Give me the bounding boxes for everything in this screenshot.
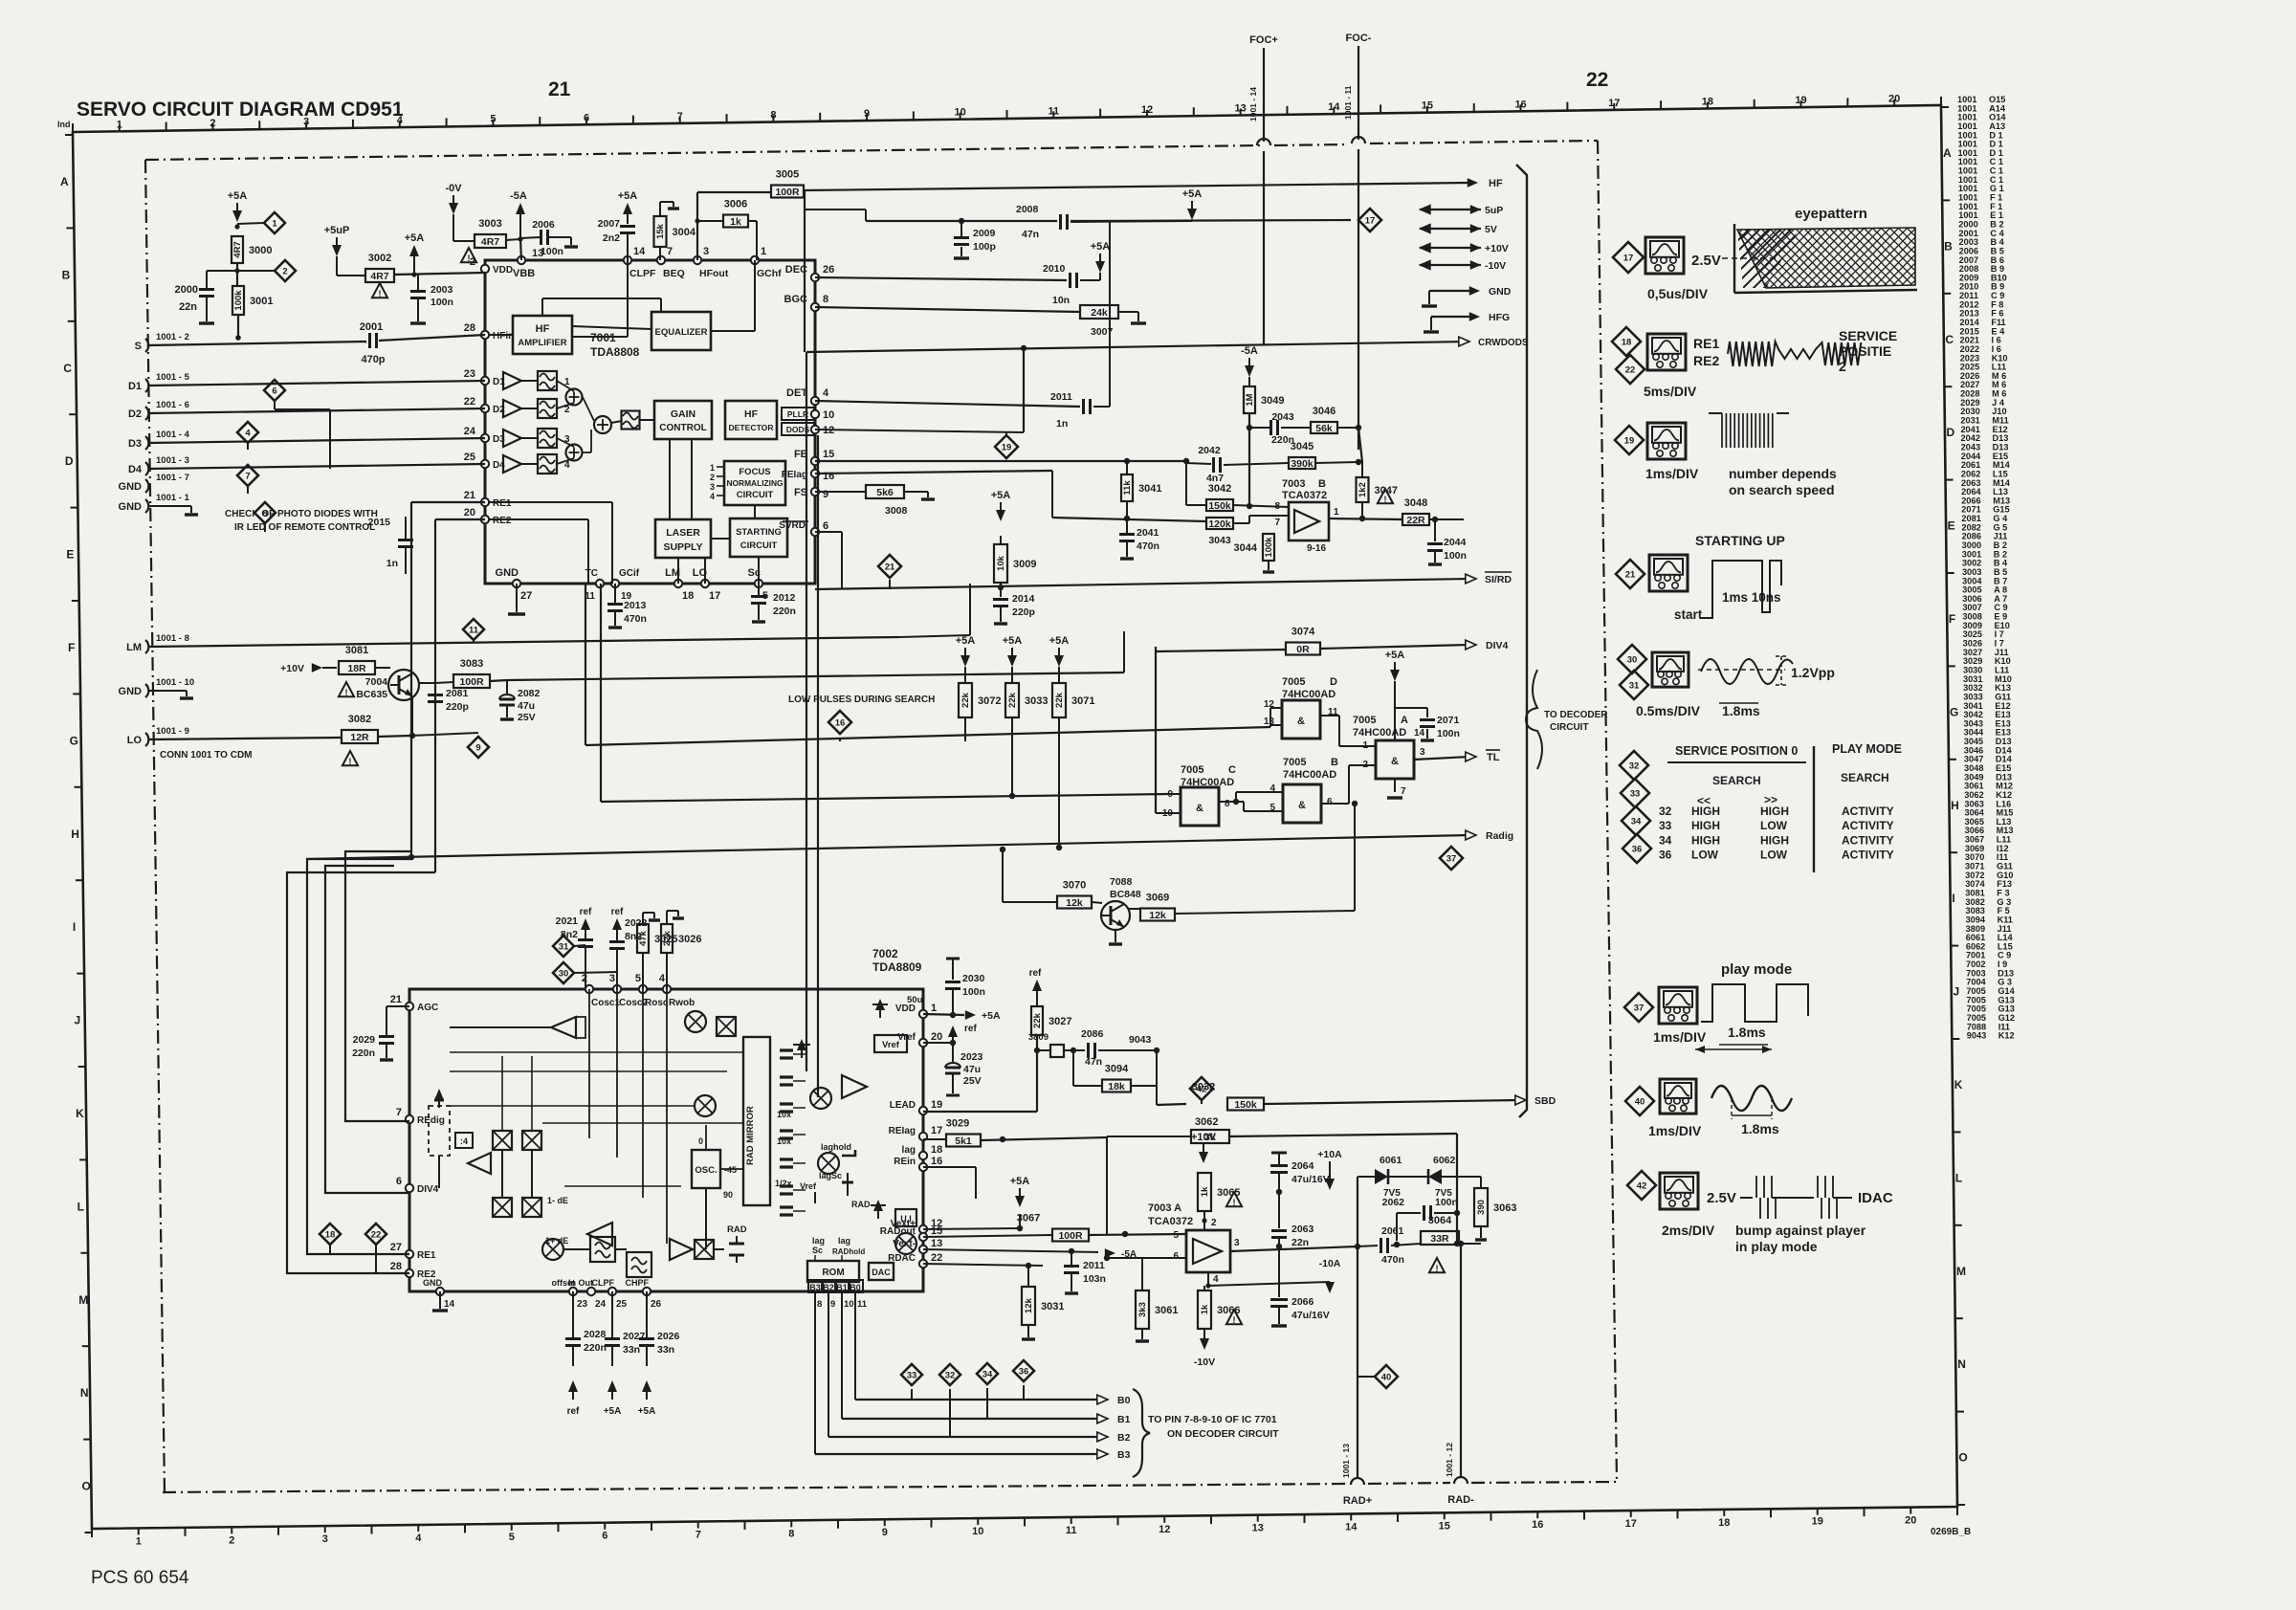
svg-text:13: 13 [532, 248, 543, 259]
svg-text:F: F [68, 641, 75, 654]
svg-text:ACTIVITY: ACTIVITY [1842, 849, 1894, 862]
svg-text:40: 40 [1635, 1097, 1645, 1108]
svg-text:16: 16 [1532, 1519, 1543, 1531]
IC7002 bottom pins [436, 1288, 444, 1295]
svg-text:150k: 150k [1234, 1099, 1257, 1111]
power +10V 7003a [1199, 1152, 1208, 1163]
svg-text:4: 4 [659, 973, 666, 984]
svg-text:SI/RD: SI/RD [1485, 574, 1512, 585]
svg-text:FS: FS [794, 487, 807, 498]
svg-text:1001 - 8: 1001 - 8 [156, 633, 189, 644]
svg-text:HF: HF [744, 408, 759, 420]
resistor R3063 390R [1480, 1177, 1482, 1188]
svg-text:D: D [65, 454, 74, 468]
arrow SIRD [1466, 574, 1476, 584]
svg-text:0.5ms/DIV: 0.5ms/DIV [1636, 703, 1701, 718]
vref pin wire [923, 1042, 953, 1044]
svg-text:5V: 5V [1485, 224, 1497, 235]
svg-text:B1: B1 [1117, 1414, 1131, 1425]
svg-text:26: 26 [823, 264, 834, 276]
svg-text:3083: 3083 [460, 658, 483, 670]
svg-text:Rwob: Rwob [669, 998, 695, 1008]
svg-text:9: 9 [864, 108, 870, 120]
svg-text:3070: 3070 [1063, 880, 1086, 892]
svg-text:M: M [78, 1293, 88, 1307]
svg-text:2010: 2010 [1043, 263, 1066, 275]
svg-text:2ms/DIV: 2ms/DIV [1662, 1223, 1715, 1238]
wire 3000-3001 [236, 263, 238, 286]
svg-text:2063: 2063 [1291, 1224, 1314, 1235]
svg-text:2066: 2066 [1291, 1296, 1314, 1308]
wire HF main [804, 183, 1469, 190]
svg-text:REdig: REdig [417, 1115, 445, 1126]
svg-text:2: 2 [229, 1534, 234, 1546]
svg-text:6: 6 [272, 386, 276, 397]
svg-text:9043: 9043 [1967, 1031, 1986, 1041]
capacitor C2009 100p [960, 221, 962, 236]
svg-text:K: K [76, 1107, 84, 1120]
resistor R3042 150k [1206, 499, 1233, 511]
tri radout [670, 1239, 693, 1260]
mult top [685, 1011, 706, 1032]
svg-text:B: B [1944, 239, 1953, 253]
svg-text:4: 4 [415, 1533, 422, 1544]
svg-text:GND: GND [119, 686, 143, 697]
svg-text:7: 7 [1274, 518, 1280, 528]
wire sc down [758, 584, 760, 589]
svg-text:N: N [1957, 1357, 1966, 1371]
svg-text:5: 5 [1173, 1230, 1179, 1241]
svg-text:3: 3 [703, 246, 709, 257]
svg-text:9043: 9043 [1129, 1034, 1152, 1046]
testpoint diamond 7 [237, 465, 258, 486]
svg-text:36: 36 [1019, 1367, 1029, 1378]
svg-text:3004: 3004 [673, 227, 696, 238]
svg-text:2071: 2071 [1437, 715, 1460, 726]
power ref 3027 [1032, 980, 1042, 991]
svg-text:DIV4: DIV4 [1486, 640, 1509, 651]
pin13 wire [520, 239, 521, 260]
svg-text:4R7: 4R7 [481, 236, 499, 248]
svg-text:ref: ref [580, 907, 592, 917]
svg-text:D: D [1947, 426, 1955, 439]
svg-text::4: :4 [460, 1136, 468, 1146]
svg-text:LOW PULSES DURING SEARCH: LOW PULSES DURING SEARCH [788, 695, 935, 705]
svg-text:&: & [1297, 716, 1305, 727]
testpoint diamond 8 [254, 502, 276, 523]
capacitor C2006 100n [520, 237, 541, 238]
svg-text:&: & [1196, 803, 1203, 814]
svg-text:E: E [1948, 519, 1955, 533]
svg-text:CIRCUIT: CIRCUIT [740, 540, 778, 551]
mirror arrow [797, 1039, 806, 1050]
svg-text:RAD MIRROR: RAD MIRROR [745, 1106, 756, 1165]
svg-text:13: 13 [931, 1238, 942, 1249]
legend scope 19 [1647, 423, 1686, 459]
svg-text:100R: 100R [459, 676, 484, 688]
svg-text:8: 8 [788, 1528, 794, 1539]
svg-text:LASER: LASER [666, 527, 700, 539]
wire RE2 route [287, 872, 435, 1273]
gnd 1001-10 wire [148, 690, 187, 692]
wire opamp out [1329, 518, 1402, 519]
svg-text:120k: 120k [1208, 518, 1231, 530]
testpoint diamond 9 [468, 737, 489, 758]
svg-text:100n: 100n [541, 246, 563, 257]
svg-text:TDA8809: TDA8809 [872, 960, 922, 974]
svg-text:-5A: -5A [510, 190, 527, 202]
svg-text:U,I: U,I [900, 1214, 912, 1224]
svg-text:J: J [1954, 985, 1960, 999]
power arrow +5A clpf [623, 203, 632, 214]
svg-text:22R: 22R [1406, 515, 1425, 526]
svg-text:10n: 10n [1052, 295, 1070, 306]
power -10V 7003a [1200, 1338, 1209, 1350]
svg-text:HIGH: HIGH [1691, 833, 1720, 847]
svg-text:D1: D1 [493, 377, 505, 387]
svg-text:3061: 3061 [1155, 1305, 1178, 1316]
svg-text:100k: 100k [233, 290, 244, 311]
svg-text:2009: 2009 [973, 228, 996, 239]
frame ruler ticks [72, 123, 74, 132]
wire D1 [148, 381, 485, 386]
svg-text:S: S [135, 341, 142, 352]
wire 3002 to VDD [337, 275, 365, 276]
wire 3065 to 2064 [1204, 1219, 1279, 1221]
resistor R3044 100k [1263, 534, 1274, 561]
svg-text:+5A: +5A [1049, 635, 1070, 647]
svg-text:FOCUS: FOCUS [739, 467, 770, 477]
svg-text:7: 7 [245, 472, 250, 482]
testpoint diamond 4 [237, 422, 258, 443]
wire vdd right [923, 1014, 964, 1015]
wire SIRD main [612, 589, 815, 595]
svg-text:O: O [81, 1480, 90, 1493]
wire radplus feed [1357, 1177, 1358, 1246]
svg-text:220p: 220p [446, 701, 469, 713]
legend scope 18 [1647, 334, 1686, 370]
wire FE [815, 460, 1186, 462]
svg-text:GND: GND [119, 481, 143, 493]
svg-text:1001 - 3: 1001 - 3 [156, 455, 189, 466]
wire RE1 [411, 501, 485, 503]
svg-text:2026: 2026 [657, 1331, 680, 1342]
svg-text:FOC+: FOC+ [1249, 34, 1278, 46]
dac block [869, 1263, 894, 1280]
svg-text:FEIag: FEIag [782, 470, 807, 480]
resistor R3045 390k [1289, 457, 1315, 469]
svg-text:3064: 3064 [1428, 1215, 1452, 1226]
wire LO continue [411, 733, 478, 736]
testpoint diamond 37 [1440, 847, 1463, 870]
svg-text:2001: 2001 [360, 321, 383, 333]
GND pickoff [1429, 290, 1473, 292]
svg-text:5: 5 [490, 114, 496, 125]
svg-text:1ms/DIV: 1ms/DIV [1648, 1123, 1702, 1138]
resistor R3033 22k [1005, 683, 1019, 717]
wire vext minus [923, 1249, 1098, 1252]
unit boundary dash-dot bottom [163, 1484, 1347, 1492]
svg-text:Rosc: Rosc [645, 998, 669, 1008]
svg-text:on search speed: on search speed [1729, 482, 1835, 497]
svg-text:2013: 2013 [624, 600, 647, 611]
svg-text:1ms/DIV: 1ms/DIV [1653, 1029, 1707, 1045]
svg-text:EQUALIZER: EQUALIZER [655, 327, 708, 338]
svg-text:16: 16 [931, 1156, 942, 1167]
svg-text:2: 2 [710, 473, 715, 482]
testpoint diamond 34 [977, 1363, 998, 1384]
svg-text:1n: 1n [1056, 418, 1068, 430]
svg-text:-45: -45 [724, 1165, 737, 1175]
svg-text:STARTING: STARTING [736, 527, 782, 538]
svg-text:PLAY MODE: PLAY MODE [1832, 742, 1902, 756]
gate wiring C in [1156, 793, 1181, 795]
svg-text:3002: 3002 [368, 253, 391, 264]
wire 150k branch [1185, 461, 1187, 505]
capacitor C2044 100n [1434, 519, 1436, 541]
svg-text:9-16: 9-16 [1307, 543, 1326, 554]
rail x841 [804, 190, 806, 352]
svg-text:!: ! [349, 757, 352, 766]
svg-text:ROM: ROM [822, 1268, 844, 1278]
testpoint diamond 6 [264, 380, 285, 401]
svg-text:5ms/DIV: 5ms/DIV [1644, 384, 1697, 399]
svg-text:1- dE: 1- dE [547, 1196, 568, 1205]
gate wiring D out [1320, 715, 1339, 717]
svg-text:RE1: RE1 [493, 498, 512, 509]
rom block [807, 1261, 859, 1282]
legend 12vpp [1776, 656, 1787, 685]
legend scope 17 [1645, 237, 1684, 274]
svg-text:18: 18 [1622, 338, 1632, 348]
svg-text:2.5V: 2.5V [1691, 253, 1721, 269]
svg-text:-0V: -0V [445, 183, 462, 194]
svg-text:4: 4 [397, 115, 404, 126]
svg-text:+5A: +5A [604, 1406, 622, 1417]
arrow HF [1468, 178, 1478, 187]
svg-text:10: 10 [844, 1299, 854, 1310]
svg-text:22: 22 [931, 1252, 942, 1264]
svg-text:1ms/DIV: 1ms/DIV [1645, 466, 1699, 481]
svg-text:CONN 1001 TO CDM: CONN 1001 TO CDM [160, 750, 253, 761]
svg-text:31: 31 [1629, 681, 1640, 692]
svg-text:10: 10 [972, 1526, 983, 1537]
svg-text:HFG: HFG [1489, 312, 1510, 323]
svg-text:2086: 2086 [1081, 1028, 1104, 1040]
svg-text:2: 2 [282, 267, 287, 277]
svg-text:-10A: -10A [1319, 1258, 1341, 1269]
svg-text:+5A: +5A [1182, 188, 1203, 200]
svg-text:3041: 3041 [1138, 483, 1161, 495]
svg-text:100k: 100k [1264, 537, 1274, 558]
svg-text:12k: 12k [1024, 1297, 1034, 1313]
svg-text:2044: 2044 [1444, 537, 1467, 548]
svg-text:7003: 7003 [1282, 478, 1305, 490]
svg-text:3003: 3003 [478, 218, 501, 230]
svg-text:RAD+: RAD+ [1343, 1495, 1372, 1507]
svg-text:22k: 22k [1007, 692, 1018, 708]
wire mid row [601, 794, 1169, 802]
svg-text:1n: 1n [386, 558, 398, 569]
svg-text:6: 6 [1173, 1251, 1179, 1262]
svg-text:1k: 1k [1200, 1304, 1210, 1314]
IC U7001 TDA8808 outline [485, 260, 815, 584]
resistor R3043 120k [1206, 518, 1233, 529]
svg-text:NORMALIZING: NORMALIZING [726, 478, 783, 488]
svg-text:B3: B3 [809, 1283, 821, 1292]
svg-text:2007: 2007 [598, 218, 621, 230]
svg-text:220n: 220n [584, 1342, 607, 1354]
IC7002 right pins [919, 1010, 927, 1018]
svg-text:470n: 470n [624, 613, 647, 625]
svg-text:!: ! [345, 688, 348, 697]
svg-text:18: 18 [682, 590, 694, 602]
svg-text:2008: 2008 [1016, 204, 1039, 215]
legend diamond 31 [1620, 671, 1648, 699]
frame border [73, 105, 1957, 1529]
summing node 1 [566, 389, 583, 406]
power arrow +5A dec [1095, 261, 1105, 273]
svg-text:19: 19 [1812, 1516, 1823, 1528]
wire to sbd [1156, 1086, 1158, 1105]
wire TC down [585, 584, 586, 745]
svg-text:2000: 2000 [175, 284, 198, 296]
svg-text:Radig: Radig [1486, 830, 1513, 842]
svg-text:REin: REin [894, 1157, 916, 1167]
testpoint diamond 21 [878, 555, 901, 578]
svg-text:number depends: number depends [1729, 466, 1837, 481]
svg-text:SERVICE POSITION 0: SERVICE POSITION 0 [1675, 744, 1798, 758]
power arrow +5A 3071 [1054, 655, 1064, 667]
svg-text:6: 6 [602, 1531, 607, 1542]
resistor R3082 12R [342, 730, 378, 743]
svg-text:100R: 100R [1058, 1230, 1083, 1242]
svg-text:25: 25 [464, 452, 475, 463]
svg-text:24: 24 [595, 1299, 607, 1310]
svg-text:7088: 7088 [1110, 876, 1133, 888]
svg-text:+5A: +5A [991, 490, 1011, 501]
svg-text:+5uP: +5uP [324, 225, 350, 236]
svg-text:LO: LO [127, 735, 143, 746]
svg-text:22k: 22k [662, 930, 673, 946]
wire BGC [815, 307, 1080, 312]
svg-text:RADhold: RADhold [832, 1247, 865, 1256]
capacitor C2028 220n [572, 1291, 574, 1337]
resistor R3000 4R7 [232, 236, 243, 263]
wire S to HFin [148, 342, 366, 345]
capacitor C2011b 103n [1071, 1251, 1072, 1265]
svg-text:100R: 100R [775, 187, 800, 198]
svg-text:10k: 10k [996, 555, 1006, 571]
svg-text:SUPPLY: SUPPLY [663, 541, 702, 553]
svg-text:74HC00AD: 74HC00AD [1353, 727, 1406, 739]
svg-text:RAD: RAD [851, 1200, 871, 1209]
svg-text:19: 19 [931, 1099, 942, 1111]
svg-text:1.8ms: 1.8ms [1722, 703, 1760, 718]
gate wiring B out [1321, 803, 1349, 805]
svg-text:1001 - 14: 1001 - 14 [1248, 87, 1258, 121]
svg-text:+5A: +5A [982, 1010, 1001, 1022]
capacitor C2023 47u [952, 1043, 954, 1062]
svg-text:7: 7 [1401, 786, 1406, 797]
svg-text:19: 19 [1795, 95, 1806, 106]
svg-text:+10V: +10V [1191, 1132, 1217, 1143]
svg-text:play mode: play mode [1721, 961, 1792, 978]
legend sine1 [1701, 659, 1793, 684]
svg-text:LOW: LOW [1760, 819, 1788, 832]
svg-text:1: 1 [931, 1003, 937, 1014]
svg-text:16: 16 [835, 718, 846, 729]
svg-text:17: 17 [709, 590, 720, 602]
capacitor C2027 33n [611, 1291, 613, 1337]
resistor R3049 1M [1248, 377, 1250, 386]
svg-text:SERVICE: SERVICE [1839, 328, 1897, 343]
svg-text:16: 16 [1514, 99, 1526, 110]
svg-text:GND: GND [119, 501, 143, 513]
wire GCif down [600, 584, 602, 802]
svg-text:100n: 100n [1444, 550, 1467, 562]
unit boundary dash-dot right [1598, 141, 1617, 1482]
svg-text:1001 - 5: 1001 - 5 [156, 372, 190, 383]
svg-text:+5A: +5A [1010, 1176, 1030, 1187]
legend diamond 19 [1615, 426, 1644, 454]
svg-text:0269B_B: 0269B_B [1931, 1527, 1971, 1537]
svg-text:ref: ref [964, 1024, 977, 1034]
svg-text:TC: TC [585, 568, 598, 579]
testpoint diamond 17 [1358, 209, 1381, 232]
IC U7002 TDA8809 outline [409, 989, 923, 1291]
svg-text:ACTIVITY: ACTIVITY [1842, 819, 1894, 832]
svg-text:lag: lag [902, 1145, 916, 1156]
b brace [1133, 1389, 1150, 1477]
svg-text:H: H [1951, 799, 1959, 812]
svg-text:Vref: Vref [882, 1040, 900, 1050]
legend diamond 21 [1616, 560, 1645, 588]
wire svrd elbow [815, 531, 842, 533]
svg-text:D4: D4 [128, 464, 143, 475]
svg-text:VBB: VBB [513, 268, 535, 279]
svg-text:CRWDODS: CRWDODS [1478, 338, 1529, 348]
svg-text:TCA0372: TCA0372 [1282, 490, 1327, 501]
svg-text:2082: 2082 [518, 688, 541, 699]
svg-text:32: 32 [1629, 761, 1640, 772]
svg-text:0,5us/DIV: 0,5us/DIV [1647, 286, 1709, 301]
svg-text:74HC00AD: 74HC00AD [1282, 689, 1336, 700]
svg-text:8: 8 [1225, 799, 1230, 809]
resistor R3002 4R7 [365, 269, 394, 282]
resistor R3001 100k [232, 286, 244, 315]
svg-text:26: 26 [651, 1299, 662, 1310]
svg-text:start: start [1674, 607, 1703, 622]
svg-text:8: 8 [1274, 501, 1280, 512]
svg-text:6: 6 [584, 112, 589, 123]
wire DEC [815, 277, 1067, 280]
summing node main [594, 416, 611, 433]
svg-text:3: 3 [303, 117, 309, 128]
svg-text:!: ! [1436, 1264, 1439, 1273]
svg-text:AMPLIFIER: AMPLIFIER [518, 338, 566, 348]
rad mirror block [743, 1037, 770, 1205]
svg-text:15: 15 [1422, 100, 1433, 112]
power arrow +5A 3033 [1007, 655, 1017, 667]
wire RE1 route [307, 859, 411, 1254]
svg-text:Vref: Vref [800, 1181, 817, 1191]
svg-text:IR LED OF REMOTE CONTROL: IR LED OF REMOTE CONTROL [234, 522, 375, 533]
svg-text:3067: 3067 [1017, 1213, 1040, 1224]
power arrow +5uP [332, 245, 342, 256]
svg-text:+5A: +5A [1385, 650, 1405, 661]
svg-text:-10V: -10V [1194, 1356, 1215, 1368]
